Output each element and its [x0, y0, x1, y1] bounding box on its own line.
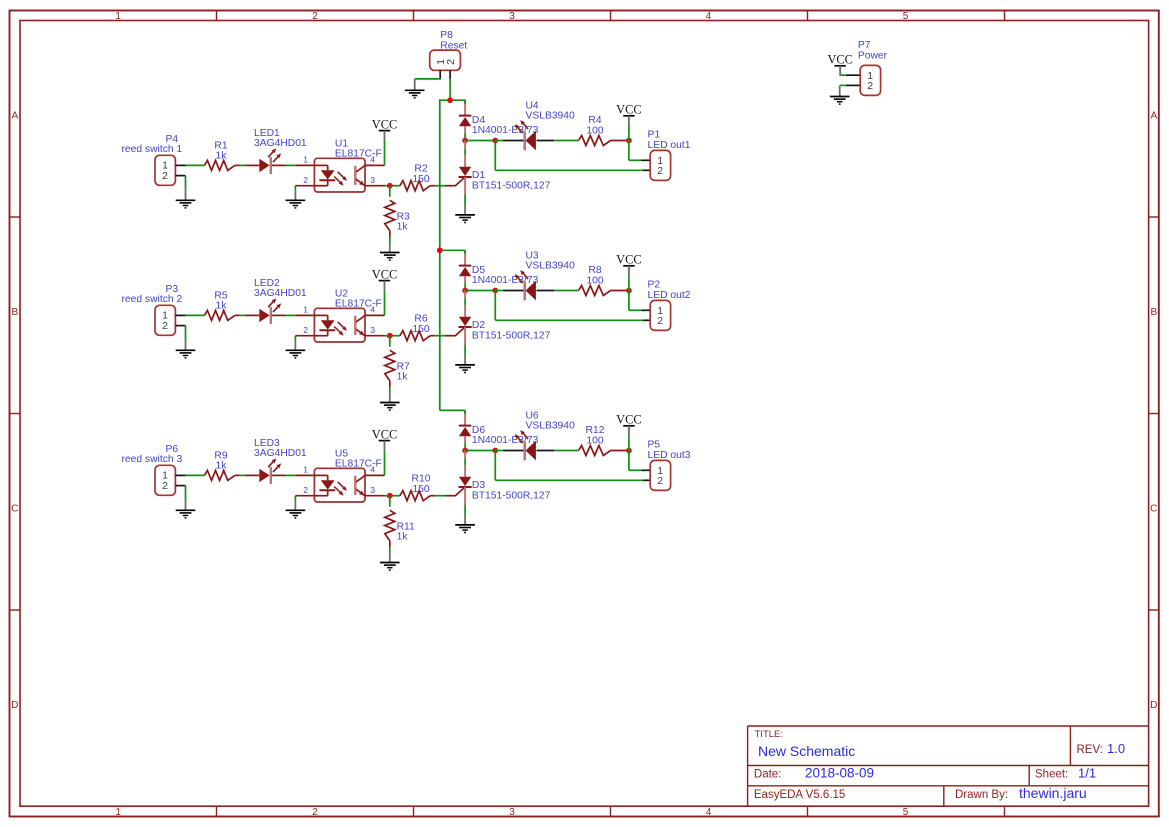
svg-text:3: 3: [370, 325, 375, 335]
svg-text:R7: R7: [397, 361, 410, 372]
svg-text:D: D: [11, 700, 18, 711]
svg-text:100: 100: [586, 275, 603, 286]
svg-text:P1: P1: [648, 130, 661, 141]
svg-text:2: 2: [162, 320, 168, 332]
svg-text:1k: 1k: [397, 372, 409, 383]
svg-text:D: D: [1150, 700, 1157, 711]
svg-text:2: 2: [312, 807, 318, 818]
svg-text:2018-08-09: 2018-08-09: [805, 766, 874, 781]
svg-text:2: 2: [867, 80, 873, 92]
svg-text:reed switch 3: reed switch 3: [122, 454, 183, 465]
svg-text:Reset: Reset: [440, 40, 467, 51]
svg-text:R4: R4: [588, 115, 601, 126]
svg-text:Date:: Date:: [754, 769, 782, 781]
svg-text:BT151-500R,127: BT151-500R,127: [472, 181, 551, 192]
svg-text:VCC: VCC: [616, 103, 641, 117]
svg-text:VSLB3940: VSLB3940: [526, 260, 576, 271]
svg-text:3AG4HD01: 3AG4HD01: [254, 448, 307, 459]
svg-text:1k: 1k: [216, 460, 228, 471]
svg-text:C: C: [11, 504, 18, 515]
svg-text:1: 1: [115, 11, 121, 22]
svg-text:3AG4HD01: 3AG4HD01: [254, 138, 307, 149]
svg-text:LED out3: LED out3: [648, 450, 691, 461]
svg-text:P2: P2: [648, 280, 661, 291]
svg-text:R12: R12: [586, 425, 605, 436]
svg-text:2: 2: [303, 485, 308, 495]
svg-text:VCC: VCC: [616, 413, 641, 427]
svg-text:VCC: VCC: [372, 117, 397, 131]
svg-text:1: 1: [303, 465, 308, 475]
svg-text:5: 5: [903, 807, 909, 818]
svg-text:TITLE:: TITLE:: [755, 729, 784, 740]
svg-text:EasyEDA V5.6.15: EasyEDA V5.6.15: [754, 789, 845, 801]
svg-text:1: 1: [303, 155, 308, 165]
svg-text:3: 3: [370, 485, 375, 495]
svg-text:A: A: [11, 111, 18, 122]
svg-text:3: 3: [509, 11, 515, 22]
svg-text:LED out2: LED out2: [648, 290, 691, 301]
svg-text:D2: D2: [472, 320, 485, 331]
svg-text:VCC: VCC: [372, 267, 397, 281]
svg-text:thewin.jaru: thewin.jaru: [1019, 785, 1087, 801]
svg-text:LED3: LED3: [254, 438, 280, 449]
svg-text:150: 150: [412, 324, 429, 335]
svg-text:P5: P5: [648, 440, 661, 451]
svg-text:R11: R11: [397, 521, 415, 532]
svg-text:B: B: [11, 307, 18, 318]
svg-text:D1: D1: [472, 170, 485, 181]
svg-text:New Schematic: New Schematic: [758, 743, 855, 759]
svg-text:C: C: [1150, 504, 1157, 515]
svg-text:4: 4: [370, 465, 375, 475]
svg-text:1.0: 1.0: [1107, 741, 1125, 756]
svg-text:1: 1: [115, 807, 121, 818]
svg-text:150: 150: [412, 484, 429, 495]
svg-text:100: 100: [586, 435, 603, 446]
svg-text:5: 5: [903, 11, 909, 22]
svg-text:4: 4: [706, 11, 712, 22]
svg-text:Power: Power: [858, 51, 888, 62]
svg-text:LED2: LED2: [254, 278, 280, 289]
svg-text:4: 4: [370, 155, 375, 165]
svg-text:4: 4: [706, 807, 712, 818]
svg-text:BT151-500R,127: BT151-500R,127: [472, 491, 551, 502]
svg-text:1/1: 1/1: [1078, 766, 1096, 781]
svg-text:1k: 1k: [216, 150, 228, 161]
svg-text:2: 2: [657, 165, 663, 177]
svg-text:1k: 1k: [397, 532, 409, 543]
svg-text:VSLB3940: VSLB3940: [526, 420, 576, 431]
svg-text:VCC: VCC: [372, 427, 397, 441]
svg-text:REV:: REV:: [1077, 744, 1103, 756]
svg-text:reed switch 1: reed switch 1: [122, 144, 183, 155]
svg-text:A: A: [1150, 111, 1157, 122]
svg-text:2: 2: [657, 315, 663, 327]
svg-text:3AG4HD01: 3AG4HD01: [254, 288, 307, 299]
svg-text:2: 2: [312, 11, 318, 22]
svg-text:VCC: VCC: [616, 253, 641, 267]
svg-text:4: 4: [370, 305, 375, 315]
svg-text:Sheet:: Sheet:: [1035, 769, 1068, 781]
svg-text:100: 100: [586, 125, 603, 136]
svg-text:3: 3: [509, 807, 515, 818]
svg-text:1N4001-E3/73: 1N4001-E3/73: [472, 435, 539, 446]
svg-text:150: 150: [412, 174, 429, 185]
svg-text:2: 2: [303, 175, 308, 185]
svg-text:LED1: LED1: [254, 128, 280, 139]
svg-text:1: 1: [303, 305, 308, 315]
svg-text:2: 2: [303, 325, 308, 335]
svg-text:1N4001-E3/73: 1N4001-E3/73: [472, 275, 539, 286]
svg-text:3: 3: [370, 175, 375, 185]
svg-text:2: 2: [445, 59, 457, 65]
svg-text:reed switch 2: reed switch 2: [122, 294, 183, 305]
svg-text:LED out1: LED out1: [648, 140, 691, 151]
svg-text:1k: 1k: [216, 300, 228, 311]
svg-text:R3: R3: [397, 211, 410, 222]
svg-text:1k: 1k: [397, 222, 409, 233]
svg-text:2: 2: [162, 170, 168, 182]
svg-text:2: 2: [162, 480, 168, 492]
svg-text:P7: P7: [858, 40, 871, 51]
svg-text:VCC: VCC: [827, 53, 852, 67]
svg-text:Drawn By:: Drawn By:: [955, 789, 1008, 801]
svg-text:2: 2: [657, 475, 663, 487]
svg-text:1N4001-E3/73: 1N4001-E3/73: [472, 125, 539, 136]
svg-text:VSLB3940: VSLB3940: [526, 110, 576, 121]
svg-text:B: B: [1150, 307, 1157, 318]
svg-text:R8: R8: [588, 265, 601, 276]
svg-text:BT151-500R,127: BT151-500R,127: [472, 331, 551, 342]
svg-text:D3: D3: [472, 480, 485, 491]
